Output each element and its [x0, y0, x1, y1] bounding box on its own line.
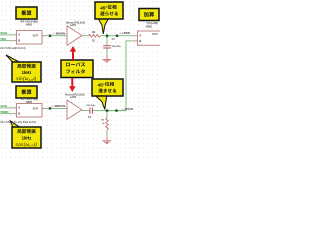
- adder U3 (ARB3) attribute text: [146, 22, 159, 28]
- svg-text:B: B: [139, 39, 141, 43]
- svg-text:MIXCOS: MIXCOS: [55, 104, 66, 108]
- wire: LO sin input to ARB1 pin B: [0, 40, 17, 42]
- wire: input to ARB1 pin A: [0, 34, 17, 36]
- node VSIN (top LO input label): [0, 38, 6, 41]
- low-pass filter U2 (LAP1) attribute text: [66, 21, 85, 28]
- svg-text:*V(A)+V(B): *V(A)+V(B): [146, 22, 158, 25]
- junction dot at I_MIXSIN: [49, 35, 51, 37]
- annotation callout "45°位相遅らせる" with tail: [95, 2, 123, 34]
- capacitor C1 lead: [106, 37, 108, 45]
- resistor R1: [89, 34, 101, 37]
- svg-text:AC 1 0.5m(1 1k -0.1) 3m(1 1k 0: AC 1 0.5m(1 1k -0.1) 3m(1 1k 0.1): [0, 121, 36, 124]
- net label I_MIXCOS: [52, 104, 65, 108]
- svg-text:159 159n: 159 159n: [112, 46, 122, 48]
- annotation callout "局部発振 1kHz cos(wLO t)": [10, 121, 41, 148]
- multiplier U4 (ARB2) attribute text: [20, 98, 38, 104]
- svg-text:*IFF (*V(A)*V(B)): *IFF (*V(A)*V(B)): [20, 20, 38, 23]
- node VCOS (bottom input label): [0, 105, 7, 108]
- LO cos source value text: [0, 121, 36, 124]
- red arrow up to LAP1: [70, 46, 76, 60]
- node VSIN90 (bottom LO input label): [0, 111, 9, 114]
- svg-text:MIXSIN: MIXSIN: [56, 31, 65, 35]
- junction at I_VPCOS label: [115, 109, 117, 111]
- wire: ARB1 OUT to LAP1 input, node I_MIXSIN: [42, 35, 67, 37]
- node VCOS (top input label): [0, 32, 7, 35]
- red arrow down to LAP2: [69, 78, 75, 92]
- svg-text:1kHz: 1kHz: [22, 70, 32, 75]
- low-pass filter U5 (LAP2) attribute text: [65, 92, 84, 99]
- C1 bottom lead: [106, 49, 108, 60]
- resistor R2 top lead: [106, 112, 108, 118]
- capacitor C1 plates: [103, 45, 111, 48]
- wire: LO cos input to ARB2 pin B: [0, 113, 17, 115]
- svg-text:45°: 45°: [98, 82, 105, 87]
- annotation callout "45°位相進ませる" with tail: [92, 79, 123, 109]
- LO sin source value text: [0, 47, 25, 50]
- wire: R1 to ARB3 pin A, node I_LPSIN: [101, 35, 138, 37]
- wire: LAP1 output to R1: [82, 35, 89, 37]
- resistor R2: [106, 118, 109, 130]
- svg-text:*IFF (*V(A)*V(B)): *IFF (*V(A)*V(B)): [20, 98, 38, 101]
- wire: ARB2 OUT to LAP2 input, node I_MIXCOS: [42, 107, 67, 109]
- wire: VPCOS up right side to ARB3 pin B: [108, 41, 138, 111]
- svg-text:sin(ωLOt): sin(ωLOt): [16, 76, 37, 82]
- svg-text:OUT: OUT: [33, 34, 39, 38]
- svg-text:1kHz: 1kHz: [22, 136, 32, 141]
- wire: LAP2 output to C2: [82, 110, 90, 112]
- svg-text:A: A: [18, 33, 20, 37]
- wire: input to ARB2 pin A: [0, 107, 17, 109]
- svg-text:LPSIN: LPSIN: [122, 31, 130, 35]
- svg-text:LAP2: LAP2: [70, 96, 77, 99]
- multiplier U1 (ARB1) attribute text: [20, 20, 38, 26]
- wire: C2 to VPCOS node: [93, 110, 126, 112]
- annotation callout "加算" (add): [139, 9, 159, 21]
- svg-text:AC 1 0.5m sin(1 1k 0.1): AC 1 0.5m sin(1 1k 0.1): [0, 47, 25, 50]
- net label I_MIXSIN: [54, 31, 66, 35]
- svg-text:LAP1: LAP1: [70, 24, 77, 27]
- resistor R2 labels: [101, 120, 105, 126]
- svg-text:B: B: [18, 39, 20, 43]
- annotation callout "ローパスフィルタ" (low-pass filter): [61, 60, 93, 78]
- svg-text:OUT: OUT: [152, 32, 158, 36]
- low-pass filter U5 (LAP2) triangle: [67, 100, 82, 119]
- svg-text:A: A: [139, 33, 141, 37]
- svg-text:VPCOS: VPCOS: [124, 107, 133, 111]
- junction dot at I_MIXCOS: [49, 107, 51, 109]
- svg-text:cos(ωLOt): cos(ωLOt): [16, 142, 38, 148]
- svg-text:159 159n: 159 159n: [86, 105, 96, 107]
- ground symbol (R2): [102, 140, 111, 144]
- ground symbol (C1): [102, 59, 111, 62]
- capacitor C2 labels: [86, 105, 96, 119]
- multiplier U1 (ARB1) box: [17, 31, 43, 45]
- junction at C1 top: [106, 35, 109, 38]
- adder U3 (ARB3) box: [138, 31, 164, 45]
- svg-text:ARB3: ARB3: [146, 26, 153, 29]
- svg-text:B: B: [18, 112, 20, 116]
- multiplier U4 (ARB2) box: [17, 104, 43, 118]
- svg-text:ARB1: ARB1: [26, 23, 33, 26]
- net label I_LPSIN: [120, 31, 130, 35]
- junction at I_LPSIN label: [116, 35, 118, 37]
- junction at R2 top: [106, 109, 109, 112]
- svg-text:45°: 45°: [100, 5, 107, 10]
- capacitor C2 plates (series): [89, 108, 93, 114]
- resistor R1 labels: [92, 32, 97, 42]
- annotation callout "局部発振 1kHz sin(wLO t)": [6, 55, 41, 82]
- svg-text:OUT: OUT: [33, 107, 39, 111]
- annotation callout "乗算" (multiply) top-left: [16, 7, 37, 19]
- capacitor C1 labels: [112, 38, 122, 48]
- low-pass filter U2 (LAP1) triangle: [67, 26, 82, 46]
- svg-text:A: A: [18, 106, 20, 110]
- net label I_VPCOS: [122, 107, 134, 111]
- R2 bottom lead: [106, 130, 108, 141]
- annotation callout "乗算" (multiply) bottom: [16, 86, 37, 98]
